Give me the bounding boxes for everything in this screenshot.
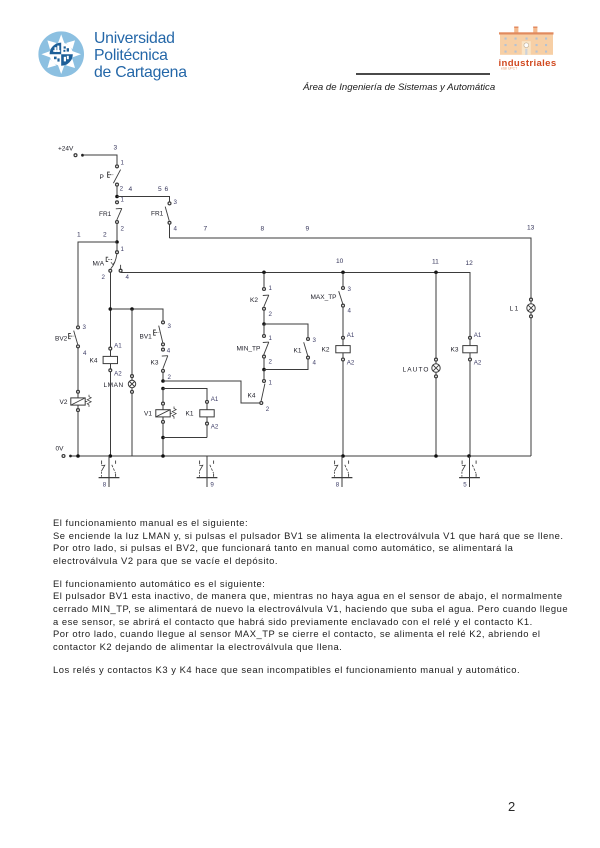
wire manual node to BV1 — [110, 309, 163, 321]
svg-text:K4: K4 — [248, 393, 256, 400]
svg-text:3: 3 — [348, 286, 352, 293]
svg-text:8: 8 — [261, 226, 265, 233]
svg-text:2: 2 — [266, 406, 270, 413]
svg-text:4: 4 — [126, 274, 130, 281]
svg-text:2: 2 — [269, 359, 273, 366]
wire K2 contact to node A — [263, 310, 265, 324]
svg-text:A2: A2 — [474, 360, 482, 367]
svg-text:4: 4 — [129, 186, 133, 193]
svg-text:2: 2 — [269, 311, 273, 318]
svg-text:A1: A1 — [474, 332, 482, 339]
node auto node MAXTP — [341, 271, 345, 275]
node node A — [262, 322, 266, 326]
lamp L1 — [510, 298, 536, 318]
solenoid valve V1 — [144, 402, 176, 423]
svg-text:FR1: FR1 — [151, 211, 164, 218]
node manual node LMAN — [130, 307, 134, 311]
wire K3 contact to node C — [162, 373, 164, 382]
svg-text:8: 8 — [103, 482, 107, 489]
wire auto rail to K3 coil — [121, 272, 470, 456]
svg-text:3: 3 — [168, 323, 172, 330]
node manual node K4 — [109, 307, 113, 311]
0V supply terminal — [56, 446, 72, 458]
svg-text:BV1: BV1 — [140, 334, 153, 341]
svg-text:A1: A1 — [114, 343, 122, 350]
wire supply to P — [84, 155, 117, 165]
pushbutton BV1 (NO) — [140, 321, 172, 355]
svg-text:1: 1 — [269, 335, 273, 342]
wire node A to MIN_TP — [263, 324, 265, 334]
svg-text:4: 4 — [313, 360, 317, 367]
node junction below P — [115, 195, 119, 199]
header rule — [356, 73, 490, 74]
svg-text:1: 1 — [121, 246, 125, 253]
page number — [508, 799, 515, 814]
wire K1 contact to node B — [264, 359, 308, 369]
svg-text:4: 4 — [348, 308, 352, 315]
wire auto rail to MAX_TP — [342, 272, 344, 286]
svg-text:K3: K3 — [151, 360, 159, 367]
svg-text:2: 2 — [121, 226, 125, 233]
contact cross-reference table K4 — [99, 456, 120, 489]
wire node2 to BV2 — [78, 242, 117, 326]
node rail node K3 — [467, 454, 471, 458]
svg-text:12: 12 — [466, 260, 474, 267]
svg-text:4: 4 — [83, 350, 87, 357]
node node E — [161, 436, 165, 440]
wire MAX_TP to bottom rail — [342, 307, 344, 456]
svg-text:V1: V1 — [144, 411, 152, 418]
pushbutton P (NC, emergency) — [100, 159, 125, 192]
wire BV2 to bottom rail — [77, 348, 79, 456]
node rail node V1 — [161, 454, 165, 458]
wire node2 to M/A — [116, 244, 118, 251]
svg-text:A1: A1 — [347, 332, 355, 339]
svg-text:3: 3 — [313, 337, 317, 344]
relay coil K3 — [451, 332, 482, 367]
node node B — [262, 368, 266, 372]
svg-text:0V: 0V — [56, 446, 65, 453]
wire node D down to V1 and rail — [162, 389, 164, 457]
contact cross-reference table K3 — [459, 456, 480, 489]
bottom rail 0V — [72, 455, 532, 457]
svg-text:A2: A2 — [347, 360, 355, 367]
lamp LMAN — [104, 375, 136, 394]
svg-text:P: P — [100, 174, 104, 181]
wire node A to K1 contact — [264, 324, 308, 337]
node auto node K2 — [262, 271, 266, 275]
emblem details — [53, 46, 60, 52]
contact K1 (NO) — [294, 337, 317, 367]
svg-text:2: 2 — [103, 232, 107, 239]
svg-text:A1: A1 — [211, 396, 219, 403]
level sensor contact MAX_TP (NO) — [311, 286, 352, 315]
contact K2 (NC) — [250, 285, 273, 318]
svg-text:2: 2 — [168, 374, 172, 381]
wire node1 to FR1 right — [117, 197, 170, 202]
svg-text:6: 6 — [165, 186, 169, 193]
+24V supply terminal — [58, 146, 84, 157]
svg-text:+24V: +24V — [58, 146, 74, 153]
svg-text:4: 4 — [167, 348, 171, 355]
svg-text:7: 7 — [204, 226, 208, 233]
wire node E to K1 A2 — [163, 437, 207, 439]
node node C — [161, 379, 165, 383]
svg-text:1: 1 — [269, 285, 273, 292]
selector switch M/A — [93, 251, 130, 281]
svg-text:8: 8 — [336, 482, 340, 489]
svg-text:1: 1 — [121, 159, 125, 166]
svg-text:MIN_TP: MIN_TP — [237, 346, 261, 353]
svg-text:2: 2 — [102, 274, 106, 281]
svg-text:11: 11 — [432, 259, 439, 266]
svg-text:5: 5 — [158, 186, 162, 193]
svg-text:K3: K3 — [451, 347, 459, 354]
node auto node LAUTO — [434, 271, 438, 275]
contact K3 (NC) — [151, 348, 172, 381]
svg-text:K2: K2 — [250, 297, 258, 304]
svg-text:5: 5 — [463, 482, 467, 489]
svg-text:13: 13 — [527, 225, 535, 232]
thermal contact FR1 (right, NO) — [151, 199, 178, 232]
svg-text:LAUTO: LAUTO — [403, 366, 430, 373]
svg-text:1: 1 — [269, 380, 273, 387]
svg-text:FR1: FR1 — [99, 211, 112, 218]
svg-text:3: 3 — [83, 324, 87, 331]
svg-text:1: 1 — [121, 196, 125, 203]
lamp LAUTO — [403, 358, 441, 378]
svg-text:4: 4 — [174, 225, 178, 232]
svg-text:K2: K2 — [322, 347, 330, 354]
node junction M/A feed — [115, 240, 119, 244]
svg-text:9: 9 — [210, 482, 214, 489]
svg-text:9: 9 — [306, 226, 310, 233]
UPCT wordmark — [94, 30, 187, 82]
svg-text:K1: K1 — [186, 411, 194, 418]
wire LAUTO node to bottom rail — [435, 272, 437, 456]
wire top rail to L1 lamp — [170, 238, 532, 456]
wire M/A pin2 to bottom rail — [109, 272, 111, 456]
industriales building logo — [495, 20, 565, 72]
svg-text:L 1: L 1 — [510, 306, 519, 313]
wire node B to K4 contact — [263, 370, 265, 380]
svg-text:V2: V2 — [60, 399, 68, 406]
header caption — [303, 82, 495, 93]
wire MIN_TP to node B — [263, 358, 265, 369]
node rail node K2 — [341, 454, 345, 458]
contact cross-reference table K2 — [332, 456, 353, 489]
relay coil K4 — [90, 343, 123, 378]
wire P to node1 — [116, 186, 118, 196]
wire auto rail to K2 contact — [263, 272, 265, 287]
svg-text:M/A: M/A — [93, 261, 105, 268]
svg-text:LMAN: LMAN — [104, 382, 124, 389]
svg-text:K1: K1 — [294, 348, 302, 355]
node node D — [161, 387, 165, 391]
wire FR1 to node2 — [116, 224, 118, 242]
wire FR1 right to top rail — [169, 224, 171, 238]
relay coil K1 — [186, 396, 219, 431]
compass star — [41, 34, 81, 74]
svg-text:MAX_TP: MAX_TP — [311, 294, 337, 301]
svg-text:10: 10 — [336, 258, 344, 265]
svg-text:2: 2 — [120, 185, 124, 192]
svg-text:1: 1 — [77, 232, 81, 239]
svg-text:K4: K4 — [90, 357, 98, 364]
svg-text:BV2: BV2 — [55, 336, 68, 343]
svg-text:A2: A2 — [114, 370, 122, 377]
node rail node LAUTO — [434, 454, 438, 458]
svg-text:3: 3 — [114, 145, 118, 152]
contact K4 (NO) — [248, 380, 273, 413]
solenoid valve V2 — [60, 390, 92, 411]
wire node C to K4 contact pin2 — [163, 381, 260, 403]
node rail node BV2 — [76, 454, 80, 458]
contact cross-reference table K1 — [197, 456, 218, 489]
level sensor contact MIN_TP (NC) — [237, 335, 273, 366]
svg-text:3: 3 — [174, 199, 178, 206]
node rail node K4 — [109, 454, 113, 458]
relay coil K2 — [322, 332, 355, 367]
wire node D to K1 coil — [163, 389, 207, 438]
thermal contact FR1 (left, NC) — [99, 196, 125, 232]
wire LMAN node to bottom rail — [131, 309, 133, 456]
UPCT logo — [38, 31, 85, 78]
pushbutton BV2 (NO) — [55, 324, 87, 357]
svg-text:A2: A2 — [211, 424, 219, 431]
